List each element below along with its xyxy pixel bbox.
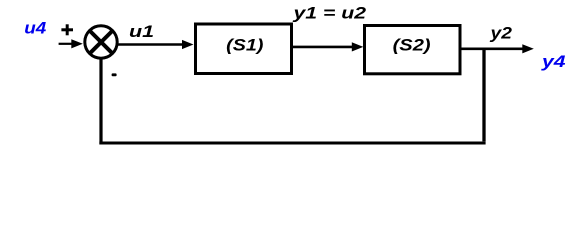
- svg-text:(S2): (S2): [393, 36, 431, 55]
- svg-text:(S1): (S1): [226, 35, 264, 54]
- svg-text:y1 = u2: y1 = u2: [292, 4, 366, 22]
- svg-text:u4: u4: [24, 19, 47, 38]
- svg-text:y4: y4: [541, 52, 566, 71]
- svg-text:y2: y2: [489, 24, 512, 43]
- svg-text:u1: u1: [129, 22, 154, 41]
